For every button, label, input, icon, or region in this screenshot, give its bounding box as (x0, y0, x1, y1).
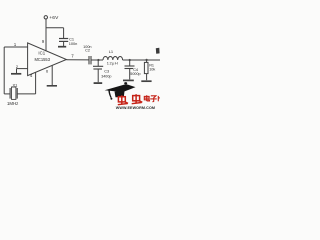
svg-text:MC1553: MC1553 (35, 57, 51, 62)
+6V supply terminal (44, 16, 47, 19)
watermark partial char at edge (158, 96, 160, 101)
svg-text:6: 6 (46, 68, 48, 73)
wire output pin 7 (66, 59, 89, 61)
svg-text:10k: 10k (149, 67, 155, 71)
svg-text:L1: L1 (109, 49, 114, 54)
svg-text:1MHz: 1MHz (7, 101, 18, 106)
resistor R1 (146, 60, 148, 62)
wire pin 1 feedback top (4, 46, 27, 48)
watermark 电 (144, 95, 149, 101)
wire pin 2 (17, 68, 28, 70)
svg-text:100n: 100n (69, 41, 78, 46)
wire L1 to right edge (123, 59, 160, 61)
wire to crystal left (4, 93, 10, 95)
inductor L1 coil (103, 57, 123, 61)
watermark 子 (150, 96, 157, 102)
crystal X1 (10, 87, 17, 99)
svg-text:C3: C3 (104, 69, 109, 73)
watermark 虫 #1 (118, 95, 128, 104)
op-amp IC1 triangle (28, 43, 67, 76)
wire node to C4 (129, 60, 131, 66)
wire top rail (46, 27, 64, 29)
wire feedback left vertical (3, 47, 5, 94)
wire crystal right to pin 4 (17, 93, 35, 95)
svg-text:WWW.EEWORM.COM: WWW.EEWORM.COM (116, 106, 155, 110)
svg-text:X1: X1 (13, 83, 19, 88)
svg-text:+6V: +6V (49, 15, 59, 21)
watermark 虫 #2 (132, 94, 143, 104)
svg-text:12μH: 12μH (107, 61, 118, 66)
svg-text:IC1: IC1 (38, 51, 45, 56)
wire C2 to node (91, 59, 103, 61)
capacitor C1 (59, 39, 68, 42)
wire node to C3 (97, 60, 99, 66)
node R1 junction (145, 59, 147, 61)
ground (pin 2) (11, 73, 21, 75)
ground (R1) (141, 80, 151, 82)
capacitor C4 (125, 66, 135, 69)
output mark at right edge (156, 48, 160, 54)
ground (C4) (123, 79, 134, 81)
node C3 junction (97, 59, 99, 61)
watermark graduation cap (105, 82, 136, 100)
svg-text:3400p: 3400p (101, 74, 111, 78)
ground (pin 6) (47, 85, 57, 87)
node C4 junction (129, 59, 131, 61)
capacitor C2 (89, 56, 91, 64)
wire pin 4 vertical (35, 72, 37, 94)
wire pin 6 (51, 65, 53, 85)
capacitor C3 (93, 66, 103, 69)
svg-text:2: 2 (16, 64, 18, 69)
ground (C1) (58, 46, 66, 48)
svg-text:C2: C2 (85, 49, 90, 53)
svg-text:5000p: 5000p (130, 72, 140, 76)
ground (C3) (94, 82, 103, 84)
wire rail to C1 (63, 28, 65, 38)
wire +6V down to pin 9 (45, 19, 47, 51)
